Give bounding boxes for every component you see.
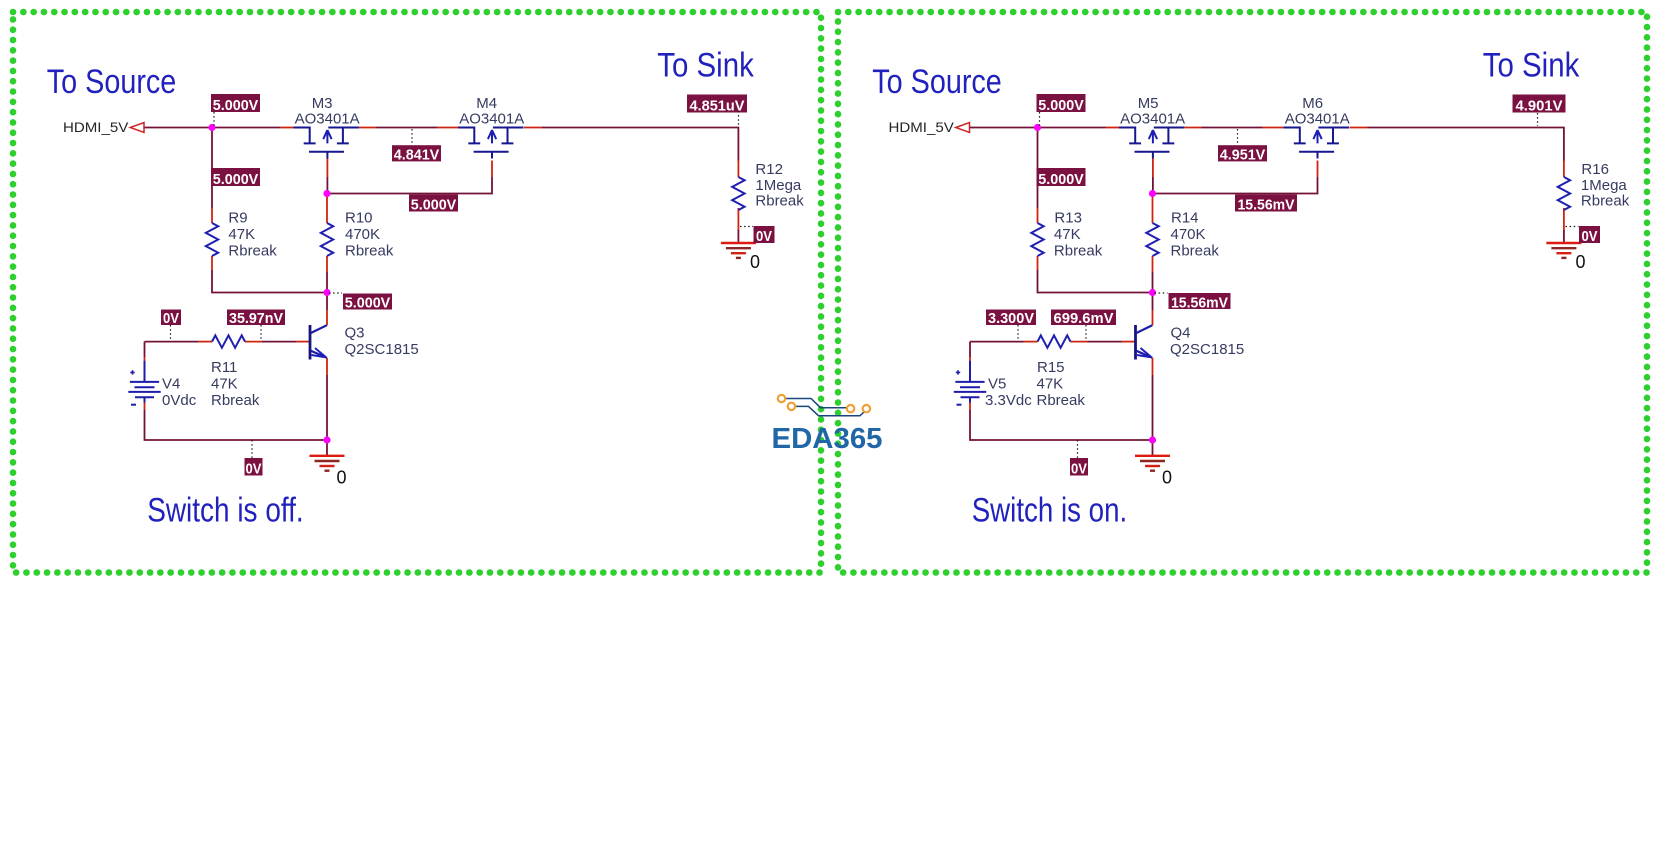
svg-text:3.300V: 3.300V — [988, 310, 1034, 327]
svg-text:R14: R14 — [1171, 210, 1199, 227]
svg-text:4.951V: 4.951V — [1220, 147, 1266, 164]
svg-text:4.901V: 4.901V — [1516, 98, 1563, 115]
svg-text:4.851uV: 4.851uV — [690, 98, 745, 115]
svg-text:Switch is on.: Switch is on. — [972, 492, 1127, 530]
svg-text:Q3: Q3 — [345, 325, 365, 342]
svg-text:M6: M6 — [1302, 95, 1323, 112]
svg-text:R10: R10 — [345, 210, 373, 227]
svg-text:EDA365: EDA365 — [772, 423, 883, 455]
svg-text:5.000V: 5.000V — [411, 197, 457, 214]
svg-text:0V: 0V — [163, 310, 179, 327]
svg-text:R12: R12 — [755, 161, 783, 178]
svg-text:15.56mV: 15.56mV — [1171, 295, 1228, 312]
svg-text:M3: M3 — [312, 95, 333, 112]
svg-text:Switch is off.: Switch is off. — [147, 492, 304, 530]
svg-text:35.97nV: 35.97nV — [229, 310, 283, 327]
svg-text:699.6mV: 699.6mV — [1054, 310, 1114, 327]
svg-text:3.3Vdc: 3.3Vdc — [985, 392, 1032, 409]
svg-text:15.56mV: 15.56mV — [1238, 197, 1295, 214]
svg-text:V5: V5 — [988, 376, 1006, 393]
svg-text:V4: V4 — [162, 376, 180, 393]
svg-text:R15: R15 — [1037, 359, 1065, 376]
svg-text:R16: R16 — [1581, 161, 1609, 178]
svg-text:R13: R13 — [1054, 210, 1082, 227]
svg-text:0Vdc: 0Vdc — [162, 392, 197, 409]
svg-text:R11: R11 — [211, 359, 237, 376]
svg-text:M5: M5 — [1138, 95, 1159, 112]
svg-text:4.841V: 4.841V — [394, 147, 440, 164]
svg-text:M4: M4 — [476, 95, 497, 112]
svg-text:R9: R9 — [228, 210, 247, 227]
svg-text:Q4: Q4 — [1171, 325, 1191, 342]
svg-text:5.000V: 5.000V — [345, 295, 391, 312]
